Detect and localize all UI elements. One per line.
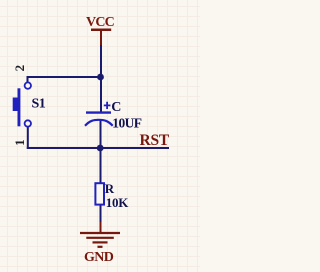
pin 1 circle: [25, 120, 31, 126]
wire: capacitor bottom to RST rail: [100, 120, 102, 184]
pin 2 circle: [25, 82, 31, 88]
resistor R: [95, 181, 129, 210]
wire: resistor bottom to ground: [100, 204, 102, 226]
body rectangle: [95, 183, 104, 204]
junction at RST / capacitor / resistor: [97, 145, 104, 152]
capacitor C: [85, 100, 142, 131]
contact bar: [18, 88, 21, 126]
power port GND: [80, 222, 120, 265]
svg-text:C: C: [111, 100, 121, 115]
wire: horizontal to switch pin 2: [28, 76, 102, 78]
svg-text:10K: 10K: [106, 195, 129, 210]
VCC stem: [100, 29, 102, 46]
wire: switch pin 1 down: [27, 127, 29, 149]
GND stem: [100, 222, 102, 232]
svg-text:R: R: [105, 181, 115, 196]
bottom plate (arc): [85, 120, 113, 126]
top plate: [86, 111, 111, 113]
wire: VCC to capacitor top: [100, 45, 102, 112]
background sheet: [0, 0, 200, 272]
GND bar 2: [86, 237, 114, 239]
button actuator: [13, 98, 18, 112]
switch S1: [12, 65, 46, 146]
svg-text:10UF: 10UF: [112, 115, 141, 130]
GND bar 4: [98, 246, 103, 248]
wire: stub down to pin 2 circle: [27, 76, 29, 83]
power port VCC: [86, 15, 115, 46]
svg-text:RST: RST: [140, 132, 170, 149]
svg-text:VCC: VCC: [86, 15, 115, 30]
svg-text:GND: GND: [84, 250, 114, 265]
wire: RST horizontal rail: [27, 147, 169, 149]
junction at VCC wire / switch wire: [97, 74, 104, 81]
svg-text:S1: S1: [32, 97, 46, 112]
GND bar 1: [80, 232, 120, 234]
VCC bar: [91, 29, 111, 32]
GND bar 3: [93, 241, 108, 243]
svg-text:2: 2: [12, 65, 27, 72]
plus polarity mark: [104, 102, 111, 109]
svg-text:1: 1: [12, 139, 27, 146]
